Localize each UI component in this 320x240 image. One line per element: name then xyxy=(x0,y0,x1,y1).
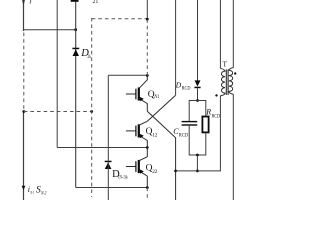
transformer core xyxy=(225,69,227,95)
terminal bar cropped component top xyxy=(71,0,79,2)
wire horizontal y=75.3 xyxy=(108,74,147,76)
wire horizontal y=29.7 xyxy=(24,29,76,31)
transformer T primary winding xyxy=(220,68,225,96)
svg-text:N-1: N-1 xyxy=(30,190,34,195)
diode D(N-1)k xyxy=(105,161,112,169)
wire diode to rail xyxy=(197,88,199,100)
wire horizontal y=187.5 xyxy=(76,187,148,189)
svg-text:(N-1)k: (N-1)k xyxy=(118,173,128,180)
wire snubber to rail xyxy=(196,155,198,171)
wire RC bottom rail xyxy=(189,126,206,155)
resistor R_RCD xyxy=(202,117,208,133)
wire vertical x=57.2 xyxy=(56,0,58,148)
node junction (147.3,75.5) xyxy=(146,74,149,77)
dashed wire x=91.7 xyxy=(91,18,93,197)
svg-text:12: 12 xyxy=(152,133,158,139)
wire vertical x=75.7 diode branch xyxy=(75,2,77,188)
wire vertical x=147.3 top xyxy=(146,0,148,19)
node junction (147.3,147.5) xyxy=(146,146,149,149)
node junction (91.7,111.5) xyxy=(90,110,93,113)
node junction (23.8,111.5) xyxy=(22,110,25,113)
svg-text:RCD: RCD xyxy=(179,134,189,139)
node junction (197.5,100.5) xyxy=(196,99,199,102)
cropped arrowhead top of left bus xyxy=(22,0,25,6)
svg-text:N1: N1 xyxy=(153,94,159,100)
wire transformer primary bottom lead xyxy=(219,96,221,171)
wire transformer secondary bottom lead xyxy=(232,94,234,200)
svg-text:2k: 2k xyxy=(87,54,91,60)
node junction (147.3,187.5) xyxy=(146,186,149,189)
dashed wire y=111.5 xyxy=(24,111,92,113)
polarity dot primary xyxy=(215,94,217,96)
node junction (75.7,29.7) xyxy=(74,28,77,31)
svg-text:N-2: N-2 xyxy=(40,192,47,197)
svg-text:R: R xyxy=(205,108,211,117)
wire RC top rail xyxy=(189,101,206,122)
wire diagonal A emitter QN1 to snubber rail xyxy=(147,111,175,200)
svg-text:22: 22 xyxy=(152,169,158,175)
capacitor C_RCD xyxy=(182,121,198,126)
wire left bus bottom segment xyxy=(23,112,25,201)
dashed wire y=18.8 xyxy=(92,18,146,20)
cropped glyph top left xyxy=(29,0,32,4)
wire vertical x=175.6 top xyxy=(175,0,177,95)
transistor Q_12 xyxy=(126,121,147,147)
svg-text:RCD: RCD xyxy=(212,114,221,119)
node junction (147.3,19.2) xyxy=(146,18,149,21)
diode D2k xyxy=(72,48,79,56)
node junction (175.6,170.9) xyxy=(174,170,177,173)
transformer T secondary winding xyxy=(229,68,234,95)
node junction (197.4,155) xyxy=(196,154,199,157)
transistor Q_22 xyxy=(126,148,147,188)
polarity dot secondary xyxy=(234,72,236,74)
wire vertical x=197.5 top xyxy=(197,0,199,81)
svg-text:T: T xyxy=(223,60,228,68)
diode D_RCD xyxy=(194,80,200,88)
wire bottom rail y=170.9 xyxy=(176,170,221,172)
wire diagonal B to Q12 collector xyxy=(147,95,175,121)
wire left bus top segment xyxy=(23,0,25,31)
dashed wire x=147.3 lower xyxy=(146,188,148,201)
wire transformer secondary top lead xyxy=(232,0,234,68)
svg-text:21: 21 xyxy=(92,0,98,5)
wire vertical x=108.3 xyxy=(107,75,109,200)
wire horizontal y=147.5 xyxy=(57,147,147,149)
node junction (197.4,170.9) xyxy=(196,170,199,173)
transistor Q_N1 xyxy=(126,76,147,112)
dashed wire x=147.3 upper xyxy=(146,19,148,75)
wire transformer primary top lead xyxy=(219,0,221,69)
current arrow i_N-1 xyxy=(22,186,26,190)
dashed wire x=24 xyxy=(23,33,25,112)
svg-text:RCD: RCD xyxy=(182,86,191,91)
